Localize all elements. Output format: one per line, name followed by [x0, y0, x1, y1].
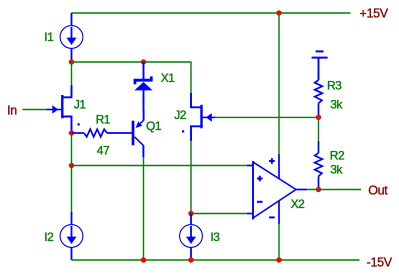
node junction C (J1 source / R1) — [69, 130, 74, 135]
wire node A to X1 top — [72, 61, 144, 63]
svg-text:R3: R3 — [327, 78, 342, 92]
svg-text:47: 47 — [97, 143, 110, 157]
pin marker dot near J2 — [182, 130, 184, 132]
svg-text:X2: X2 — [291, 197, 306, 211]
svg-text:3k: 3k — [330, 98, 343, 112]
node junction A (I1 out) — [69, 59, 74, 64]
pin marker dot near J1 — [78, 123, 80, 125]
resistor R1 — [72, 129, 132, 137]
node junction B (X1 top) — [141, 59, 146, 64]
node junction E (output) — [316, 187, 321, 192]
wire op-amp V- down to bottom rail — [278, 224, 280, 260]
transistor Q1 (PNP) — [133, 110, 144, 158]
svg-text:X1: X1 — [161, 71, 176, 85]
svg-text:Q1: Q1 — [146, 119, 162, 133]
node dot Q1 collector at rail — [141, 257, 146, 262]
wire J2 source down to node G — [190, 141, 192, 214]
wire J2 gate to R3/R2 node — [215, 116, 319, 118]
wire R3/R2 node down to R2 pin — [318, 117, 320, 141]
wire Q1 collector down to bottom rail — [143, 157, 145, 260]
node dot I3 at rail — [188, 257, 193, 262]
wire node G to op-amp - input — [191, 213, 247, 215]
svg-text:In: In — [7, 103, 17, 117]
op-amp X2 — [247, 154, 307, 224]
svg-text:3k: 3k — [330, 163, 343, 177]
svg-text:+15V: +15V — [360, 7, 389, 21]
svg-text:J1: J1 — [74, 97, 87, 111]
node junction F — [69, 163, 74, 168]
transistor J1 (n-JFET) — [47, 85, 72, 133]
svg-text:J2: J2 — [174, 108, 187, 122]
node junction G — [188, 211, 193, 216]
wire In to J1 gate — [23, 109, 48, 111]
current source I2 — [60, 212, 83, 260]
current source I1 — [60, 13, 83, 62]
svg-text:I3: I3 — [210, 230, 220, 244]
wire top rail down to op-amp V+ — [278, 13, 280, 154]
svg-text:I2: I2 — [44, 230, 54, 244]
zener diode X1 — [134, 62, 153, 111]
svg-text:I1: I1 — [44, 30, 54, 44]
ground (flipped, above R3) — [312, 51, 328, 80]
wire J1 drain up to node A — [71, 62, 73, 86]
node dot on top rail (op-amp supply) — [276, 10, 281, 15]
transistor J2 (n-JFET, mirrored) — [191, 93, 216, 141]
node junction D (R3/R2/gate) — [316, 115, 321, 120]
resistor R2 — [315, 141, 323, 190]
svg-text:-15V: -15V — [367, 255, 393, 269]
current source I3 — [180, 214, 203, 261]
wire output to Out — [307, 189, 361, 191]
wire node F to op-amp + input — [72, 165, 248, 167]
wire node B to J2 drain — [144, 62, 192, 94]
resistor R3 — [315, 80, 323, 117]
wire +15V top rail — [72, 12, 351, 14]
svg-text:R2: R2 — [330, 148, 345, 162]
svg-text:Out: Out — [368, 183, 388, 197]
wire node F down to I2 — [71, 166, 73, 214]
svg-text:R1: R1 — [96, 113, 111, 127]
wire node C down to node F — [71, 133, 73, 166]
wire -15V bottom rail — [72, 259, 360, 261]
node dot op-amp V- at rail — [276, 257, 281, 262]
